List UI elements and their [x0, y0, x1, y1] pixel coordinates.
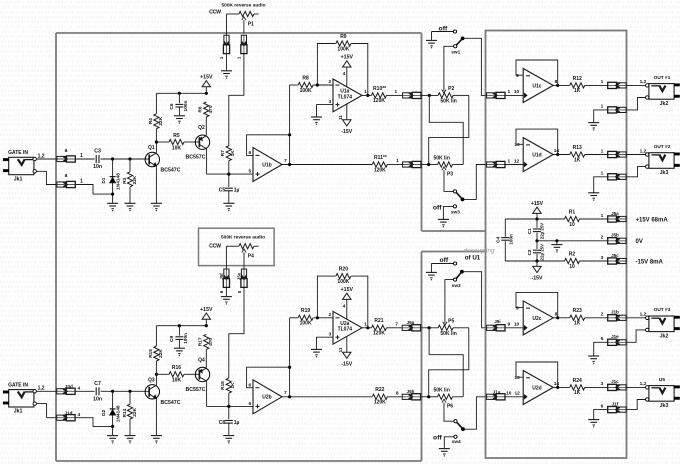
svg-text:C6: C6	[169, 103, 175, 109]
resistor R10	[372, 86, 387, 104]
wire	[205, 349, 207, 367]
wire	[228, 161, 230, 174]
node	[227, 173, 230, 176]
power +15V (rail)	[531, 201, 544, 219]
svg-text:10: 10	[514, 89, 520, 95]
svg-text:10K: 10K	[172, 145, 182, 151]
svg-text:100n: 100n	[509, 234, 514, 245]
wire (U2b out row)	[282, 396, 372, 398]
svg-text:1: 1	[80, 178, 83, 184]
svg-text:2: 2	[601, 235, 604, 241]
wire	[627, 381, 647, 387]
svg-text:BC547C: BC547C	[161, 400, 181, 406]
wire (sw1 to P2 wiper)	[442, 46, 454, 93]
svg-text:120K: 120K	[374, 400, 386, 406]
node	[428, 326, 431, 329]
wire	[506, 327, 524, 329]
svg-text:4: 4	[77, 386, 80, 392]
wire (R20 feedback left)	[317, 276, 335, 318]
wire (R20 feedback right)	[351, 276, 368, 328]
potentiometer P3 50K lin	[433, 155, 453, 177]
svg-text:1: 1	[507, 89, 510, 95]
wire	[594, 410, 608, 420]
resistor R6	[198, 102, 214, 117]
svg-text:50K lin: 50K lin	[433, 388, 449, 394]
svg-text:Jk2: Jk2	[660, 101, 669, 107]
wire	[178, 339, 180, 347]
wire	[594, 110, 608, 123]
svg-text:off: off	[433, 205, 442, 212]
wire	[453, 164, 464, 166]
wire	[553, 84, 570, 86]
wire	[205, 117, 207, 135]
wire	[422, 94, 439, 96]
op-amp U2b	[248, 380, 287, 414]
wire (jk3 sleeve)	[627, 167, 646, 177]
wire	[580, 213, 608, 219]
wire	[76, 390, 95, 392]
svg-text:R8: R8	[302, 75, 309, 81]
svg-text:R3: R3	[122, 177, 128, 183]
node	[316, 316, 319, 319]
label CCW (P4)	[209, 244, 221, 250]
wire	[129, 187, 131, 203]
resistor R17	[198, 334, 214, 349]
svg-text:1K: 1K	[574, 157, 581, 163]
wire (0V row)	[537, 235, 607, 241]
wire (U1c feedback)	[516, 60, 558, 85]
svg-text:U1d: U1d	[532, 153, 541, 159]
svg-text:100K: 100K	[300, 88, 312, 94]
connector (P2 to U1c)	[486, 89, 519, 98]
svg-text:1,2: 1,2	[38, 153, 45, 159]
svg-text:Jk3: Jk3	[660, 403, 669, 409]
svg-text:3: 3	[328, 331, 331, 337]
svg-text:8: 8	[396, 390, 399, 396]
wire (U2b feedback)	[247, 367, 290, 388]
svg-text:P6: P6	[447, 404, 453, 410]
wire	[537, 218, 565, 220]
wire (Q3 collector)	[155, 374, 157, 385]
svg-text:J5h: J5h	[407, 389, 415, 394]
wire (sw4 common)	[465, 397, 486, 429]
svg-text:+15V: +15V	[200, 307, 213, 313]
svg-text:10: 10	[569, 222, 575, 228]
resistor R11	[372, 155, 387, 173]
svg-text:R1: R1	[569, 209, 576, 215]
resistor R24	[570, 378, 585, 396]
svg-text:10n: 10n	[93, 164, 102, 170]
node	[111, 193, 114, 196]
node	[178, 324, 181, 327]
svg-text:0V: 0V	[636, 239, 643, 245]
op-amp U1d	[514, 138, 559, 172]
ground	[588, 420, 599, 428]
svg-text:3: 3	[601, 255, 604, 261]
svg-text:5: 5	[248, 169, 251, 175]
node	[288, 395, 291, 398]
wire	[585, 148, 608, 154]
wire	[506, 396, 524, 398]
svg-text:J1d: J1d	[65, 410, 73, 415]
svg-text:R15: R15	[148, 349, 154, 358]
svg-text:1K: 1K	[574, 321, 581, 327]
svg-text:10n: 10n	[93, 397, 102, 403]
svg-text:J3d: J3d	[65, 384, 73, 389]
svg-text:sw3: sw3	[451, 209, 460, 215]
diode D1 1N4148	[101, 173, 121, 190]
svg-text:J5e: J5e	[237, 272, 242, 280]
svg-text:C1: C1	[527, 228, 532, 234]
resistor R18	[220, 378, 236, 393]
wire	[422, 164, 438, 166]
svg-text:6: 6	[219, 290, 224, 293]
node	[556, 316, 559, 319]
connector (out1)	[607, 82, 627, 88]
wire	[585, 312, 608, 318]
label 500K reverse audio (P4)	[221, 234, 265, 240]
wire	[627, 148, 647, 154]
op-amp U1b	[248, 148, 287, 182]
ground	[223, 203, 234, 211]
svg-text:9: 9	[507, 322, 510, 328]
svg-text:+15V: +15V	[341, 55, 354, 61]
connector (R11 to P3)	[402, 161, 422, 167]
svg-text:7: 7	[284, 158, 287, 164]
node	[178, 92, 181, 95]
connector J1a (P6 to U2d)	[486, 389, 520, 400]
svg-text:12: 12	[515, 391, 521, 397]
connector J5g	[402, 320, 422, 331]
resistor R15	[148, 346, 164, 361]
svg-text:Q2: Q2	[198, 125, 205, 131]
svg-text:50K lin: 50K lin	[440, 99, 456, 105]
wire	[290, 84, 298, 86]
wire	[313, 317, 333, 319]
resistor R9	[336, 34, 351, 53]
wire	[228, 174, 230, 187]
svg-text:C9: C9	[169, 336, 175, 342]
capacitor C4 100n	[495, 219, 537, 261]
power +15V (U1a pin4)	[341, 55, 354, 87]
switch sw4	[452, 420, 465, 446]
jack Jk2 OUT #3	[646, 307, 680, 339]
svg-text:R22: R22	[375, 387, 384, 393]
svg-text:1: 1	[601, 148, 604, 154]
svg-text:Q1: Q1	[148, 145, 155, 151]
wire (U1d feedback)	[516, 129, 558, 154]
wire	[585, 381, 608, 387]
svg-text:1: 1	[601, 104, 604, 110]
wire (P4 wiper feed)	[229, 286, 244, 378]
svg-text:off: off	[433, 434, 442, 441]
wire	[536, 233, 538, 241]
wire	[289, 367, 291, 397]
connector J1d	[56, 410, 80, 420]
wire (Q4 collector)	[206, 381, 208, 406]
capacitor C2 22u	[527, 244, 545, 261]
wire	[112, 159, 114, 176]
op-amp U1c	[516, 69, 558, 103]
op-amp U2c	[516, 301, 558, 335]
wire	[101, 158, 150, 160]
capacitor C7	[93, 381, 102, 403]
svg-text:R17: R17	[198, 337, 204, 346]
svg-text:3: 3	[601, 381, 604, 387]
svg-text:J1e: J1e	[611, 334, 619, 339]
svg-text:J5i: J5i	[494, 319, 500, 324]
wire	[362, 327, 372, 329]
svg-text:6: 6	[601, 403, 604, 409]
svg-text:J1c: J1c	[611, 379, 619, 384]
wire	[184, 141, 199, 143]
svg-text:J5g: J5g	[407, 320, 415, 325]
wire	[228, 191, 230, 203]
node	[205, 324, 208, 327]
svg-text:Jk1: Jk1	[14, 176, 23, 182]
svg-text:U2c: U2c	[532, 316, 541, 322]
wire	[226, 14, 228, 35]
svg-text:50K lin: 50K lin	[440, 331, 456, 337]
svg-text:-15V: -15V	[341, 129, 352, 135]
node	[111, 425, 114, 428]
power +15V	[200, 307, 213, 326]
svg-text:22K: 22K	[158, 349, 164, 358]
svg-text:R9: R9	[340, 34, 347, 40]
ground	[151, 203, 162, 211]
svg-text:1K: 1K	[230, 382, 236, 389]
svg-text:100n: 100n	[183, 333, 189, 344]
node	[556, 84, 559, 87]
wire	[225, 246, 227, 268]
svg-text:R14: R14	[122, 408, 128, 417]
connector J1f (out4 sleeve)	[601, 401, 627, 412]
connector J3d	[56, 384, 80, 394]
switch sw3 ch2 off terminal	[431, 262, 456, 272]
ground	[107, 203, 118, 211]
node	[288, 163, 291, 166]
svg-text:10: 10	[506, 391, 512, 397]
jack Jk1 GATE IN	[3, 150, 45, 182]
capacitor C3	[93, 149, 102, 171]
wire	[553, 154, 570, 156]
resistor R13	[570, 145, 585, 163]
wire	[289, 318, 291, 367]
svg-text:decoupling: decoupling	[464, 247, 495, 254]
potentiometer P5 50K lin	[438, 319, 457, 337]
node	[555, 239, 558, 242]
svg-text:J5a: J5a	[611, 211, 619, 216]
svg-text:J5c: J5c	[611, 253, 619, 258]
svg-text:5: 5	[237, 290, 242, 293]
svg-text:5: 5	[601, 336, 604, 342]
potentiometer P6 50K lin	[433, 388, 453, 410]
ground	[588, 356, 599, 364]
wire	[155, 93, 157, 113]
wire (U2c feedback)	[516, 292, 558, 317]
node	[227, 405, 230, 408]
svg-text:C7: C7	[94, 381, 101, 387]
svg-text:1: 1	[601, 79, 604, 85]
resistor R20	[336, 267, 351, 286]
ground	[588, 193, 599, 201]
svg-text:9: 9	[516, 305, 519, 311]
svg-text:1: 1	[364, 89, 367, 95]
ground	[223, 436, 234, 444]
wire (U1b feedback)	[247, 135, 290, 156]
node	[111, 390, 114, 393]
svg-text:500K reverse audio: 500K reverse audio	[222, 2, 266, 8]
svg-text:+15V: +15V	[200, 74, 213, 80]
resistor R12	[570, 76, 585, 94]
wire (sw1 common)	[464, 38, 485, 95]
svg-text:1: 1	[396, 158, 399, 164]
potentiometer P1	[227, 11, 259, 33]
module box: channel-2 pot/switch sub-board	[422, 251, 486, 253]
svg-text:1N4148: 1N4148	[116, 173, 122, 190]
svg-text:TL074: TL074	[338, 94, 353, 100]
label CCW	[209, 10, 221, 16]
svg-text:1µ: 1µ	[234, 420, 240, 426]
capacitor C8	[219, 420, 240, 426]
svg-text:R21: R21	[374, 318, 383, 324]
connector (out2)	[607, 151, 627, 157]
node	[556, 153, 559, 156]
svg-text:OUT #3: OUT #3	[654, 307, 671, 313]
wire (U2d feedback)	[516, 362, 558, 387]
wire	[422, 327, 439, 329]
wire	[386, 321, 401, 327]
svg-text:C8: C8	[219, 420, 226, 426]
potentiometer P4	[226, 244, 258, 269]
svg-text:500K reverse audio: 500K reverse audio	[221, 234, 265, 240]
svg-text:100K: 100K	[337, 279, 349, 285]
wire	[101, 390, 150, 392]
svg-text:R4: R4	[148, 118, 154, 124]
svg-text:120K: 120K	[373, 98, 385, 104]
module box: main board outline	[56, 33, 422, 461]
svg-text:sw1: sw1	[451, 49, 460, 55]
svg-text:470: 470	[208, 105, 214, 113]
wire	[76, 418, 113, 427]
wire	[156, 141, 169, 143]
wire	[155, 326, 157, 346]
module box: output board outline	[486, 31, 627, 459]
svg-text:R7: R7	[220, 150, 226, 156]
node	[535, 239, 538, 242]
connector J1b (out3)	[607, 310, 627, 321]
wire	[453, 327, 469, 329]
node	[535, 259, 538, 262]
wire	[36, 158, 56, 160]
svg-text:R13: R13	[573, 145, 582, 151]
svg-text:R10**: R10**	[373, 86, 386, 92]
svg-text:J5f: J5f	[219, 273, 224, 280]
resistor R7	[220, 146, 236, 161]
svg-text:1K: 1K	[574, 390, 581, 396]
module box: channel-1 pot/switch sub-board	[422, 230, 486, 232]
wire (P3 wiper to sw3)	[442, 167, 453, 192]
connector J5b	[607, 233, 627, 244]
svg-text:1: 1	[237, 56, 242, 59]
power -15V (rail)	[532, 261, 543, 282]
wire	[112, 415, 114, 435]
svg-text:R24: R24	[573, 378, 582, 384]
wire	[362, 94, 372, 96]
switch sw3 off terminal	[443, 205, 456, 219]
wire (Q3 emitter)	[155, 398, 157, 435]
svg-text:TL074: TL074	[338, 327, 353, 333]
wire	[155, 361, 157, 374]
resistor R2	[565, 251, 580, 269]
svg-text:R6: R6	[198, 106, 204, 112]
svg-text:7: 7	[284, 390, 287, 396]
connector (R10 to P2)	[402, 92, 422, 98]
label of U1	[465, 255, 481, 262]
ground	[174, 348, 185, 356]
wire (out3 sleeve)	[627, 330, 646, 342]
ground	[107, 436, 118, 444]
jack Jk1 GATE IN (ch2)	[3, 382, 45, 414]
resistor R3	[122, 172, 138, 187]
wire (R9 feedback right)	[351, 44, 368, 96]
wire	[112, 183, 114, 203]
ground	[588, 123, 599, 131]
svg-text:1K: 1K	[574, 88, 581, 94]
svg-text:1: 1	[219, 56, 224, 59]
ground	[551, 245, 562, 253]
connector J5c	[607, 253, 627, 264]
connector J5f (P4 ccw)	[219, 268, 230, 293]
svg-text:470: 470	[208, 338, 214, 346]
svg-text:R18: R18	[220, 381, 226, 390]
wire (P5 right to P6 left)	[429, 328, 469, 397]
module box: P4 pot box	[199, 228, 275, 265]
svg-text:BC557C: BC557C	[186, 155, 206, 161]
resistor R21	[372, 318, 387, 336]
label off (sw1)	[439, 25, 448, 32]
resistor R23	[570, 308, 585, 326]
svg-text:D1: D1	[101, 177, 107, 183]
node	[111, 157, 114, 160]
wire (Q1 emitter)	[155, 166, 157, 203]
capacitor C1 22u	[527, 223, 545, 240]
svg-text:R16: R16	[172, 365, 181, 371]
svg-text:10K: 10K	[172, 378, 182, 384]
svg-text:100K: 100K	[300, 321, 312, 327]
node	[427, 163, 430, 166]
wire	[129, 419, 131, 435]
connector J5e (P4 wiper)	[237, 268, 247, 293]
jack Jk3 OUT #2	[646, 144, 680, 176]
ground	[426, 40, 437, 48]
wire	[76, 185, 113, 195]
svg-text:4: 4	[77, 412, 80, 418]
connector (P1 wiper)	[237, 35, 247, 60]
wire	[594, 342, 608, 356]
svg-text:U5: U5	[659, 377, 665, 383]
svg-text:1: 1	[80, 153, 83, 159]
node	[128, 390, 131, 393]
op-amp U2d	[514, 371, 559, 405]
switch sw3 (ch2)	[452, 270, 464, 289]
wire (U2b + input row)	[207, 405, 253, 407]
node	[556, 386, 559, 389]
wire	[228, 393, 230, 406]
connector (P1 ccw)	[219, 35, 229, 60]
switch sw3	[451, 190, 465, 216]
ground	[125, 203, 136, 211]
